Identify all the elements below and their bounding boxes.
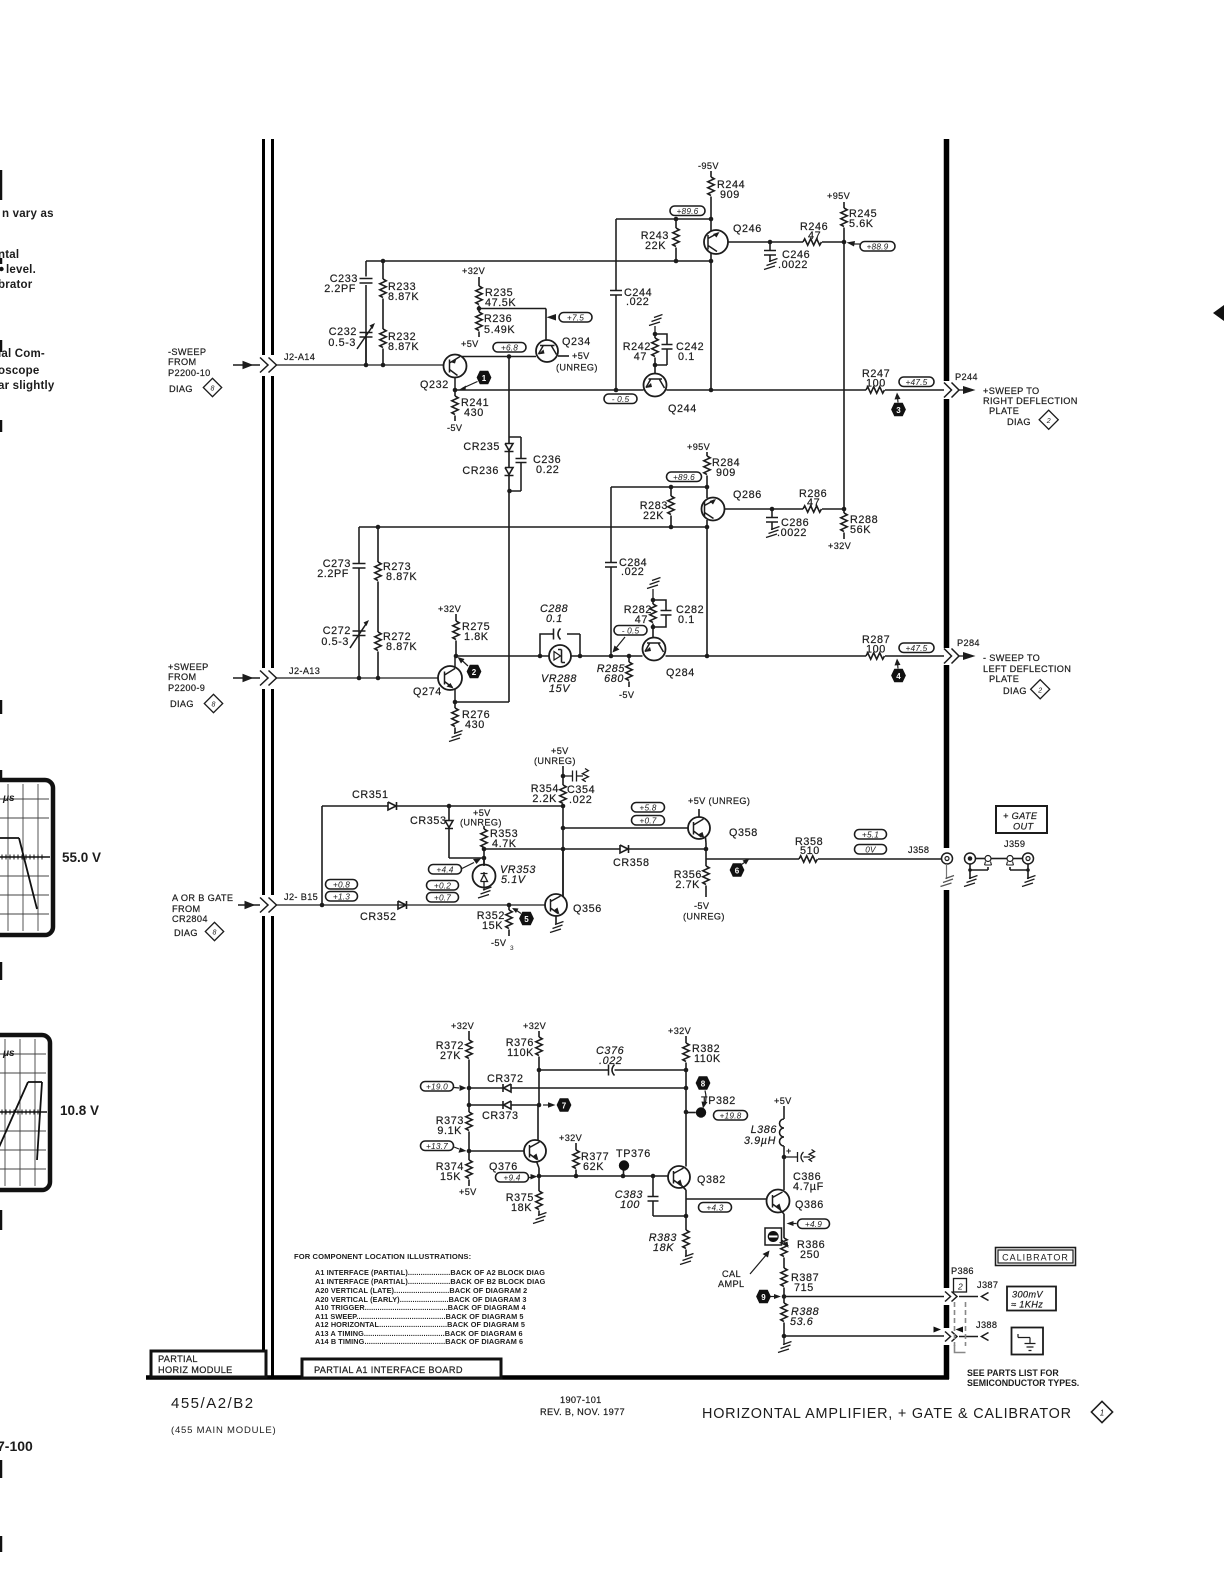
svg-text:A20 VERTICAL (LATE)...........: A20 VERTICAL (LATE).....................…: [315, 1286, 527, 1295]
svg-text:47: 47: [807, 497, 820, 509]
wire: input 1 arrow: [233, 362, 260, 369]
svg-text:3: 3: [896, 406, 901, 415]
callout +7.5: [547, 313, 593, 323]
svg-text:+5V: +5V: [551, 746, 569, 756]
svg-text:(UNREG): (UNREG): [460, 818, 502, 828]
potentiometer R386 (cal adjust): [765, 1228, 789, 1248]
svg-text:250: 250: [800, 1249, 820, 1261]
ground (VR353): [478, 887, 492, 898]
node -SWEEP FROM P2200-10: [168, 347, 211, 394]
svg-text:8: 8: [701, 1079, 706, 1088]
svg-text:+4.4: +4.4: [436, 865, 453, 875]
svg-text:7-100: 7-100: [0, 1438, 33, 1454]
svg-text:909: 909: [720, 189, 740, 201]
callout +89.6 (stage2): [667, 472, 702, 482]
svg-text:+19.0: +19.0: [426, 1082, 448, 1092]
svg-text:≈ 1KHz: ≈ 1KHz: [1011, 1300, 1043, 1310]
wire: divider junction to Q234 collector: [479, 309, 546, 340]
svg-text:+89.6: +89.6: [677, 206, 699, 216]
svg-text:oscope: oscope: [0, 365, 39, 377]
capacitor C284: [605, 487, 617, 656]
svg-text:4: 4: [896, 672, 901, 681]
svg-text:μs: μs: [2, 1048, 15, 1059]
svg-text:18K: 18K: [511, 1202, 532, 1214]
resistor R247: [866, 387, 885, 393]
callout +0.2: [427, 881, 459, 891]
transistor Q356: [545, 849, 567, 925]
ground (J359 right): [1022, 876, 1036, 887]
svg-text:Q358: Q358: [729, 827, 758, 839]
wire: CR351 rail y806: [322, 805, 563, 807]
svg-text:2.2PF: 2.2PF: [317, 568, 349, 580]
svg-text:n vary as: n vary as: [2, 208, 54, 220]
svg-text:100: 100: [620, 1199, 640, 1211]
diode CR352: [398, 901, 407, 909]
resistor R376: [536, 1031, 542, 1105]
svg-text:+4.9: +4.9: [805, 1219, 822, 1229]
svg-text:AMPL: AMPL: [718, 1279, 744, 1289]
svg-text:Q244: Q244: [668, 403, 697, 415]
connector P386-J387 chevrons: [945, 1292, 957, 1302]
svg-text:A1 INTERFACE (PARTIAL)........: A1 INTERFACE (PARTIAL)..................…: [315, 1268, 545, 1277]
junction dots stage1: [364, 259, 619, 393]
resistor R358: [799, 856, 818, 862]
svg-text:Q284: Q284: [666, 667, 695, 679]
callout +88.9: [847, 241, 896, 252]
wire: input 2 to Q274 base: [277, 677, 439, 679]
resistor R353: [481, 826, 487, 866]
wire: clamp rail y849: [484, 848, 706, 850]
box: PARTIAL HORIZ MODULE: [151, 1351, 266, 1377]
resistor R388: [781, 1297, 787, 1337]
zener VR353: [473, 858, 496, 891]
svg-text:909: 909: [716, 467, 736, 479]
transistor Q286: [702, 487, 804, 656]
svg-text:J2-A13: J2-A13: [289, 666, 320, 676]
svg-text:.022: .022: [621, 566, 644, 578]
svg-text:18K: 18K: [653, 1242, 674, 1254]
resistor R275: [453, 614, 459, 656]
SECTION: frame: [146, 139, 949, 1379]
svg-text:+0.8: +0.8: [333, 880, 350, 890]
test point TP382: [686, 1095, 736, 1118]
wire: bottom heavy border line: [146, 1375, 949, 1380]
diode CR235: [505, 357, 514, 468]
svg-text:2.2K: 2.2K: [532, 793, 557, 805]
svg-text:brator: brator: [0, 279, 33, 291]
svg-text:+5.8: +5.8: [639, 803, 656, 813]
svg-text:55.0 V: 55.0 V: [62, 850, 101, 865]
svg-text:+95V: +95V: [827, 191, 851, 201]
svg-text:0V: 0V: [865, 845, 877, 855]
resistor R232: [380, 329, 386, 365]
callout +89.6: [670, 206, 705, 216]
wire: feedback rail y261: [366, 260, 711, 262]
wire: input 3 to Q356 base: [277, 904, 546, 906]
svg-text:3: 3: [510, 945, 514, 952]
svg-text:1: 1: [1100, 1409, 1104, 1418]
diamond 8 (diag ref, input 3): [205, 922, 223, 940]
resistor R282: [650, 600, 656, 627]
resistor R375: [536, 1176, 542, 1215]
svg-text:J358: J358: [908, 845, 929, 855]
SECTION: titleblock: [171, 1395, 1113, 1436]
svg-text:0.1: 0.1: [678, 614, 695, 626]
node 6 (hex): [730, 859, 750, 877]
node A OR B GATE FROM CR2804: [172, 893, 233, 938]
connector P284 chevrons: [944, 649, 959, 664]
page edge tick marks: [0, 170, 2, 1552]
resistor R374: [466, 1151, 472, 1186]
svg-text:Q274: Q274: [413, 686, 442, 698]
svg-text:+19.8: +19.8: [720, 1111, 742, 1121]
resistor R288: [841, 509, 847, 539]
resistor R354: [560, 785, 566, 897]
node 1 (hex): [459, 371, 492, 391]
node 7 (hex): [543, 1098, 571, 1112]
svg-text:22K: 22K: [645, 240, 666, 252]
svg-text:8.87K: 8.87K: [388, 291, 419, 303]
svg-text:0.5-3: 0.5-3: [328, 337, 356, 349]
svg-text:P2200-9: P2200-9: [168, 683, 205, 693]
svg-text:(455 MAIN MODULE): (455 MAIN MODULE): [171, 1425, 276, 1436]
svg-text:CR372: CR372: [487, 1073, 524, 1085]
wire: to J387: [959, 1296, 978, 1298]
svg-text:+32V: +32V: [438, 604, 462, 614]
trace: [0, 838, 37, 930]
resistor R285: [626, 656, 632, 687]
note SEE PARTS LIST: [967, 1368, 1079, 1388]
trace: [0, 1082, 42, 1172]
resistor R273: [375, 527, 381, 632]
capacitor C272 (variable): [350, 620, 369, 648]
callout +6.8: [493, 343, 526, 353]
resistor R387: [781, 1258, 787, 1297]
capacitor C386: [784, 1150, 815, 1163]
svg-text:62K: 62K: [583, 1161, 604, 1173]
svg-text:.022: .022: [599, 1055, 622, 1067]
svg-text:5: 5: [524, 915, 529, 924]
wire: Q376 base y1151: [468, 1150, 524, 1152]
wire: calibrator output 2 y1336: [784, 1335, 944, 1337]
svg-text:+32V: +32V: [668, 1026, 692, 1036]
svg-text:.0022: .0022: [777, 527, 807, 539]
callout -0.5: [604, 394, 637, 404]
SECTION: stage2: [317, 442, 1071, 742]
svg-text:SEMICONDUCTOR TYPES.: SEMICONDUCTOR TYPES.: [967, 1378, 1079, 1388]
callout +5.1: [855, 830, 887, 840]
svg-text:SEE PARTS LIST FOR: SEE PARTS LIST FOR: [967, 1368, 1059, 1378]
svg-text:CR2804: CR2804: [172, 914, 208, 924]
node 3 (hex): [891, 393, 906, 417]
svg-text:CR352: CR352: [360, 911, 397, 923]
wire: interface board right heavy bar: [944, 139, 950, 1379]
svg-text:8: 8: [211, 386, 215, 393]
svg-text:PLATE: PLATE: [989, 674, 1019, 684]
box 300mV 1KHz: [1007, 1287, 1056, 1311]
ground (J359 left): [964, 876, 978, 887]
resistor R246: [803, 239, 844, 245]
svg-text:(UNREG): (UNREG): [556, 363, 598, 373]
box CALIBRATOR: [996, 1248, 1076, 1266]
svg-text:Q232: Q232: [420, 379, 449, 391]
connector P386 housing (dashed): [955, 1302, 966, 1353]
wire: Q356 collector to Q358 base y828: [563, 827, 688, 829]
svg-text:μs: μs: [2, 793, 15, 804]
svg-text:(UNREG): (UNREG): [683, 912, 725, 922]
ground (R383): [680, 1254, 694, 1265]
wire: input 1 to Q232 base: [277, 364, 444, 366]
svg-text:+47.5: +47.5: [906, 643, 928, 653]
svg-text:DIAG: DIAG: [174, 928, 198, 938]
diode CR353: [445, 806, 484, 858]
svg-text:53.6: 53.6: [790, 1316, 813, 1328]
wire: +88.9 node column down to stage2: [843, 242, 845, 509]
svg-text:110K: 110K: [507, 1047, 534, 1059]
ground (C286): [766, 527, 780, 538]
transistor Q284: [643, 627, 666, 661]
diamond 2 (diag ref P244): [1039, 410, 1058, 429]
transistor Q376: [524, 1105, 546, 1176]
svg-text:22K: 22K: [643, 510, 664, 522]
capacitor C286: [766, 509, 778, 530]
svg-text:715: 715: [794, 1282, 814, 1294]
svg-text:+95V: +95V: [687, 442, 711, 452]
svg-text:P386: P386: [951, 1266, 974, 1276]
capacitor C246: [764, 242, 776, 262]
capacitor C288: [540, 629, 580, 657]
diamond 8 (diag ref, input 2): [204, 694, 222, 712]
svg-text:+32V: +32V: [462, 266, 486, 276]
resistor R244: [708, 171, 714, 219]
svg-text:+1.3: +1.3: [333, 892, 350, 902]
svg-text:PARTIAL A1 INTERFACE BOARD: PARTIAL A1 INTERFACE BOARD: [314, 1365, 463, 1375]
svg-text:-SWEEP: -SWEEP: [168, 347, 206, 357]
callout +0.8: [326, 880, 358, 890]
ground (R375): [533, 1213, 547, 1224]
svg-text:DIAG: DIAG: [170, 699, 194, 709]
resistor R373: [466, 1112, 472, 1151]
SECTION: inputs: [168, 347, 545, 941]
svg-text:2: 2: [957, 1282, 963, 1292]
component location illustrations list: [294, 1252, 546, 1346]
resistor R233: [380, 261, 386, 329]
svg-text:CALIBRATOR: CALIBRATOR: [1002, 1253, 1069, 1263]
callout +0.7 (gate in): [427, 893, 459, 903]
callout +19.0: [421, 1082, 467, 1092]
svg-text:CR235: CR235: [463, 441, 500, 453]
diode CR358: [620, 845, 629, 853]
transistor Q386: [767, 1190, 790, 1239]
connector J388: [982, 1333, 989, 1341]
capacitor C282: [653, 600, 672, 627]
svg-text:8: 8: [213, 930, 217, 937]
callout +0.7 (Q358): [632, 816, 665, 826]
capacitor C242: [655, 334, 673, 365]
svg-text:2.2PF: 2.2PF: [324, 283, 356, 295]
wire: P244 exit arrow: [959, 386, 976, 394]
svg-text:10.8 V: 10.8 V: [60, 1103, 99, 1118]
callout +9.4: [496, 1173, 538, 1183]
svg-text:1.8K: 1.8K: [464, 631, 489, 643]
ground (above R282): [647, 578, 661, 601]
svg-text:J2- B15: J2- B15: [284, 892, 318, 902]
capacitor C354: [563, 769, 588, 782]
svg-text:TP376: TP376: [616, 1148, 651, 1160]
transistor Q246: [704, 219, 803, 390]
SECTION: stage1: [324, 161, 1078, 702]
connector P386-J388 chevrons: [945, 1332, 957, 1342]
svg-text:1: 1: [482, 374, 487, 383]
svg-text:- 0.5: - 0.5: [622, 626, 640, 636]
svg-text:FROM: FROM: [168, 357, 196, 367]
svg-text:+5V: +5V: [459, 1187, 477, 1197]
wire: stage2 feedback rail y487: [611, 486, 707, 488]
svg-text:+0.7: +0.7: [639, 816, 656, 826]
svg-text:CR353: CR353: [410, 815, 447, 827]
connector J2-A14 chevrons: [260, 358, 277, 373]
svg-text:2: 2: [1046, 418, 1051, 425]
zener VR288: [549, 645, 571, 667]
svg-text:455/A2/B2: 455/A2/B2: [171, 1395, 255, 1412]
diode CR351: [388, 802, 397, 810]
svg-text:+5V: +5V: [461, 339, 479, 349]
wire: calibrator output 1 y1296.5: [784, 1296, 944, 1298]
svg-text:A OR B GATE: A OR B GATE: [172, 893, 233, 903]
svg-text:15K: 15K: [440, 1171, 461, 1183]
svg-text:+32V: +32V: [828, 541, 852, 551]
node +SWEEP TO RIGHT DEFLECTION PLATE: [983, 386, 1078, 427]
resistor R382: [683, 1036, 689, 1167]
svg-text:5.49K: 5.49K: [484, 324, 515, 336]
wire: riser J2-B15 to CR351 rail: [321, 806, 323, 905]
diode CR236: [456, 468, 514, 703]
svg-text:8: 8: [212, 702, 216, 709]
callout +4.4: [429, 859, 482, 875]
svg-text:ial Com-: ial Com-: [0, 348, 45, 360]
resistor R241: [452, 390, 458, 421]
svg-text:300mV: 300mV: [1012, 1290, 1043, 1300]
inductor L386: [780, 1106, 785, 1190]
connector J359: [965, 853, 1034, 865]
node 4 (hex): [891, 659, 906, 683]
svg-text:+6.8: +6.8: [501, 343, 518, 353]
polarity arrows P386: [934, 1327, 942, 1333]
ground (above R242): [649, 315, 663, 335]
connector P244 chevrons: [944, 383, 959, 398]
svg-text:FOR COMPONENT LOCATION ILLUSTR: FOR COMPONENT LOCATION ILLUSTRATIONS:: [294, 1252, 471, 1261]
callout +4.3: [699, 1203, 732, 1213]
svg-text:+5V: +5V: [473, 808, 491, 818]
svg-text:-5V: -5V: [694, 901, 710, 911]
diode CR372: [503, 1084, 511, 1092]
svg-text:430: 430: [465, 719, 485, 731]
svg-text:0.5-3: 0.5-3: [321, 636, 349, 648]
svg-text:A14 B TIMING..................: A14 B TIMING............................…: [315, 1337, 523, 1346]
svg-text:3.9µH: 3.9µH: [744, 1135, 776, 1147]
svg-text:+88.9: +88.9: [867, 242, 889, 252]
svg-text:+SWEEP TO: +SWEEP TO: [983, 386, 1040, 396]
svg-text:47.5K: 47.5K: [485, 297, 516, 309]
connector P386 pin 2 box: [954, 1279, 967, 1293]
svg-text:56K: 56K: [850, 524, 871, 536]
svg-text:47: 47: [808, 230, 821, 242]
svg-text:DIAG: DIAG: [169, 384, 193, 394]
svg-text:LEFT DEFLECTION: LEFT DEFLECTION: [983, 664, 1071, 674]
svg-text:HORIZONTAL AMPLIFIER, + GATE: HORIZONTAL AMPLIFIER, + GATE & CALIBRATO…: [702, 1406, 1072, 1422]
resistor R236: [476, 312, 482, 337]
svg-text:(UNREG): (UNREG): [534, 756, 576, 766]
page edge diamond marker: [1213, 305, 1224, 321]
svg-text:Q286: Q286: [733, 489, 762, 501]
SECTION: calibrator: [421, 1021, 945, 1353]
callout +4.9: [787, 1219, 830, 1229]
transistor Q274: [438, 656, 462, 702]
svg-text:47: 47: [635, 614, 648, 626]
wire: interface board left boundary line B (double line, right): [271, 139, 274, 1358]
svg-text:15V: 15V: [549, 683, 571, 695]
svg-text:6: 6: [735, 866, 740, 875]
connector J387: [982, 1293, 989, 1301]
callout +5.8: [632, 803, 665, 813]
svg-text:8.87K: 8.87K: [388, 341, 419, 353]
svg-text:8.87K: 8.87K: [386, 641, 417, 653]
svg-text:- SWEEP TO: - SWEEP TO: [983, 653, 1040, 663]
wire: Q232 collector to Q234 base y356: [462, 356, 536, 358]
wire: CR373 rail y1105: [468, 1104, 539, 1106]
svg-text:100: 100: [866, 644, 886, 656]
svg-text:P2200-10: P2200-10: [168, 368, 211, 378]
node 2 (hex): [458, 657, 482, 678]
svg-text:+47.5: +47.5: [906, 377, 928, 387]
resistor R356: [703, 859, 709, 897]
wire: input 2 arrow: [233, 675, 260, 682]
svg-text:Q376: Q376: [489, 1161, 518, 1173]
transistor Q234: [536, 340, 569, 362]
svg-text:+SWEEP: +SWEEP: [168, 662, 209, 672]
svg-text:+0.7: +0.7: [434, 893, 451, 903]
callout +1.3: [326, 892, 358, 902]
svg-text:.022: .022: [569, 794, 592, 806]
box: PARTIAL A1 INTERFACE BOARD: [302, 1359, 501, 1378]
diode CR373: [503, 1101, 511, 1109]
svg-text:ar slightly: ar slightly: [0, 380, 55, 392]
svg-text:+5V (UNREG): +5V (UNREG): [688, 796, 750, 806]
svg-text:CR358: CR358: [613, 857, 650, 869]
SECTION: outputs: [908, 305, 1224, 1388]
wire: stage2 feedback rail y527: [359, 526, 707, 528]
callout +47.5 (stage2): [899, 643, 934, 653]
node +SWEEP FROM P2200-9: [168, 662, 209, 709]
svg-text:+13.7: +13.7: [426, 1141, 448, 1151]
svg-text:Q246: Q246: [733, 223, 762, 235]
capacitor C244: [610, 219, 622, 390]
svg-text:OUT: OUT: [1013, 822, 1034, 832]
svg-text:.022: .022: [626, 296, 649, 308]
svg-text:CR351: CR351: [352, 789, 389, 801]
svg-text:Q382: Q382: [697, 1174, 726, 1186]
svg-text:430: 430: [464, 407, 484, 419]
svg-text:FROM: FROM: [172, 904, 200, 914]
wire: emitter rail y1176: [539, 1175, 668, 1177]
wire: J359 right shield to ground: [1010, 864, 1030, 879]
svg-text:Q386: Q386: [795, 1199, 824, 1211]
svg-text:-5V: -5V: [619, 690, 635, 700]
svg-text:DIAG: DIAG: [1007, 417, 1031, 427]
ground (J358): [941, 864, 955, 887]
transistor Q244: [644, 365, 667, 397]
resistor R383: [683, 1199, 689, 1256]
